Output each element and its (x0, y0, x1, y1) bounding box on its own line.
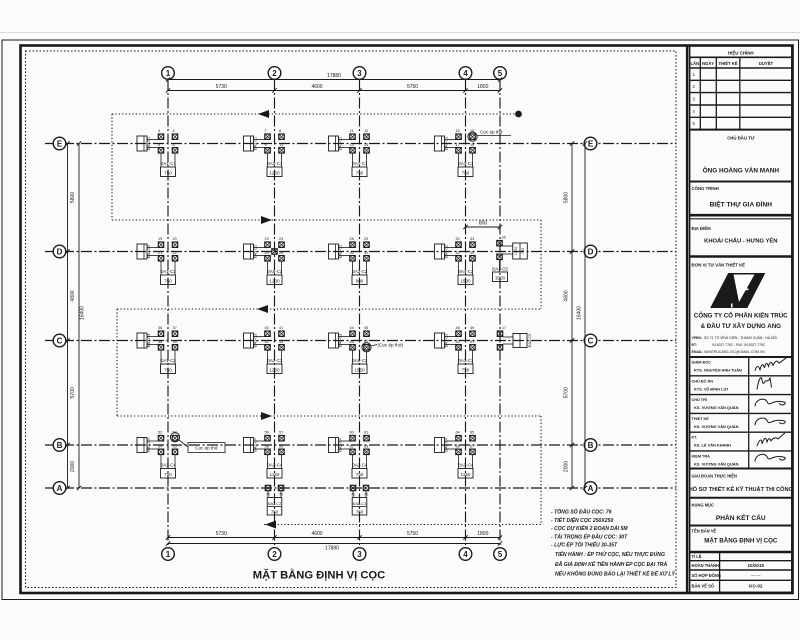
svg-text:NẾU KHÔNG ĐÚNG BÁO LẠI THIẾT K: NẾU KHÔNG ĐÚNG BÁO LẠI THIẾT KẾ ĐỂ XỬ LÝ (555, 570, 675, 578)
svg-text:- CỌC DỰ KIẾN 2 ĐOẠN DÀI 5M: - CỌC DỰ KIẾN 2 ĐOẠN DÀI 5M (551, 524, 628, 532)
svg-text:TÊN BẢN VẼ: TÊN BẢN VẼ (692, 529, 717, 534)
svg-text:KTS. VŨ ĐÌNH LỢI: KTS. VŨ ĐÌNH LỢI (694, 386, 728, 391)
column bubble 1 top (162, 67, 175, 80)
svg-text:ÔNG HOÀNG VĂN MANH: ÔNG HOÀNG VĂN MANH (703, 166, 780, 175)
grid line 4 (465, 80, 467, 548)
sequence line band 2 (112, 216, 541, 224)
sequence line band 5 (264, 521, 541, 529)
svg-text:35: 35 (502, 236, 506, 240)
svg-text:KT.: KT. (692, 436, 698, 440)
svg-text:44: 44 (350, 326, 354, 330)
column bubble 2 top (268, 67, 281, 80)
svg-text:15: 15 (456, 129, 460, 133)
svg-text:48: 48 (456, 326, 460, 330)
svg-text:D: D (57, 247, 63, 256)
svg-text:45: 45 (364, 326, 368, 330)
svg-text:D: D (588, 247, 594, 256)
svg-text:4: 4 (463, 550, 468, 559)
pile cap B2 (244, 431, 285, 478)
svg-text:4600: 4600 (311, 84, 322, 90)
svg-text:VPĐD:: VPĐD: (692, 336, 703, 340)
drawing title (253, 569, 385, 582)
dimension overall bottom 17880 (166, 541, 502, 551)
row bubble A left (53, 482, 66, 495)
location section (690, 226, 793, 257)
company name (694, 312, 788, 331)
svg-text:4600: 4600 (311, 531, 322, 537)
svg-text:KS. VƯƠNG VĂN QUÂN: KS. VƯƠNG VĂN QUÂN (694, 461, 739, 466)
svg-text:- TẢI TRỌNG ÉP ĐẦU CỌC: 30T: - TẢI TRỌNG ÉP ĐẦU CỌC: 30T (551, 532, 628, 540)
svg-text:5750: 5750 (407, 84, 418, 90)
dimension overall left 16400 (77, 141, 86, 490)
column bubble 4 bottom (459, 548, 472, 561)
svg-text:36: 36 (158, 326, 162, 330)
test pile note row B (170, 433, 225, 453)
pile cap D4 (435, 237, 476, 284)
svg-text:HỒ SƠ THIẾT KẾ KỸ THUẬT THI CÔ: HỒ SƠ THIẾT KẾ KỸ THUẬT THI CÔNG (689, 485, 793, 493)
svg-text:5800: 5800 (564, 192, 570, 203)
svg-text:HẠNG MỤC: HẠNG MỤC (692, 503, 715, 508)
svg-text:17880: 17880 (325, 545, 339, 551)
sequence line right 4-5 (540, 416, 542, 525)
sequence line right 2-3 (540, 220, 542, 309)
grid line D (45, 251, 676, 253)
grid line A (45, 487, 676, 489)
svg-text:16400: 16400 (80, 306, 86, 320)
svg-text:THIẾT KẾ: THIẾT KẾ (692, 416, 710, 421)
pile cap D1 (137, 237, 178, 284)
svg-text:2: 2 (272, 69, 277, 78)
row bubble A right (584, 482, 597, 495)
svg-text:1800: 1800 (477, 531, 488, 537)
dimension segments left (65, 141, 76, 490)
column bubble 4 top (459, 67, 472, 80)
svg-text:NGÀY: NGÀY (702, 61, 714, 66)
phase section (689, 474, 793, 498)
svg-text:KS. LÊ VĂN KHANH: KS. LÊ VĂN KHANH (694, 443, 731, 448)
pile cap C4 (435, 326, 476, 373)
column bubble 3 bottom (353, 548, 366, 561)
svg-text:HIỆU CHỈNH: HIỆU CHỈNH (728, 51, 754, 56)
pile cap D3 (329, 237, 370, 284)
column bubble 1 bottom (162, 548, 175, 561)
svg-text:24: 24 (279, 237, 283, 241)
svg-text:37: 37 (173, 326, 177, 330)
pile cap C1 (137, 326, 178, 373)
pile cap C2 (244, 326, 285, 373)
svg-text:2000: 2000 (564, 461, 570, 472)
info table (690, 552, 793, 592)
grid line B (45, 444, 676, 446)
svg-text:4800: 4800 (70, 290, 76, 301)
svg-text:- TỔNG SỐ ĐẦU CỌC: 76: - TỔNG SỐ ĐẦU CỌC: 76 (551, 509, 612, 516)
svg-text:04.6327.7762 - FAX: 04.6327.77: 04.6327.7762 - FAX: 04.6327.7762 (712, 343, 765, 347)
svg-text:4800: 4800 (564, 290, 570, 301)
svg-text:A: A (57, 484, 63, 493)
drawing border dotted (26, 51, 677, 588)
svg-text:64: 64 (456, 431, 460, 435)
svg-text:ĐƠN VỊ TƯ VẤN THIẾT KẾ: ĐƠN VỊ TƯ VẤN THIẾT KẾ (692, 263, 746, 268)
grid line E (45, 143, 676, 145)
svg-text:EMAIL:: EMAIL: (692, 350, 704, 354)
svg-text:DUYỆT: DUYỆT (759, 61, 774, 66)
svg-text:1: 1 (166, 69, 171, 78)
svg-text:20: 20 (173, 237, 177, 241)
row bubble B right (584, 439, 597, 452)
sequence line left 1-2 (111, 114, 113, 220)
dimension overall right 16400 (577, 141, 588, 490)
svg-text:BIỆT THỰ GIA ĐÌNH: BIỆT THỰ GIA ĐÌNH (710, 200, 773, 209)
dimension segments bottom (166, 531, 502, 540)
row bubble C right (584, 334, 597, 347)
title block divider (686, 46, 688, 594)
svg-text:800: 800 (479, 221, 488, 227)
svg-text:CHỦ ĐẦU TƯ: CHỦ ĐẦU TƯ (727, 136, 755, 141)
svg-text:2: 2 (272, 550, 277, 559)
svg-text:61: 61 (364, 431, 368, 435)
svg-text:19: 19 (158, 237, 162, 241)
svg-text:TỈ LỆ: TỈ LỆ (692, 554, 702, 559)
personnel table (690, 357, 793, 469)
svg-text:B: B (588, 441, 594, 450)
svg-text:KTS. NGUYỄN ANH TUẤN: KTS. NGUYỄN ANH TUẤN (694, 368, 742, 373)
svg-text:5750: 5750 (407, 531, 418, 537)
column bubble 3 top (353, 67, 366, 80)
pile cap B3 (329, 431, 370, 478)
svg-text:- LỰC ÉP TỐI THIỂU 30-35T: - LỰC ÉP TỐI THIỂU 30-35T (551, 541, 618, 549)
svg-text:(Cọc ép thử): (Cọc ép thử) (378, 342, 404, 348)
svg-text:ĐÃ GIẢ ĐỊNH KẾ TIẾN HÀNH ÉP CỌ: ĐÃ GIẢ ĐỊNH KẾ TIẾN HÀNH ÉP CỌC ĐẠI TRÀ (555, 560, 667, 568)
pile cap E2 (244, 129, 285, 176)
column bubble 2 bottom (268, 548, 281, 561)
pile cap A3 (350, 485, 368, 515)
notes (551, 509, 675, 578)
pile cap C5 (497, 326, 532, 350)
svg-text:4: 4 (463, 69, 468, 78)
svg-text:41: 41 (279, 326, 283, 330)
svg-text:E: E (588, 139, 594, 148)
svg-text:KIỂM TRA: KIỂM TRA (692, 453, 711, 458)
svg-text:10/2015: 10/2015 (747, 563, 764, 568)
svg-text:MẶT BẰNG ĐỊNH VỊ CỌC: MẶT BẰNG ĐỊNH VỊ CỌC (704, 537, 778, 545)
svg-text:LẦN: LẦN (690, 61, 699, 66)
revision table (690, 51, 793, 130)
sequence line left 3-4 (116, 309, 118, 416)
svg-text:SỐ HỢP ĐỒNG: SỐ HỢP ĐỒNG (692, 573, 722, 578)
svg-text:2000: 2000 (70, 461, 76, 472)
svg-text:65: 65 (470, 431, 474, 435)
svg-text:B: B (57, 441, 63, 450)
test pile note row C (362, 342, 404, 352)
svg-text:CHỦ TRÌ: CHỦ TRÌ (692, 397, 707, 402)
svg-text:3: 3 (357, 69, 362, 78)
svg-text:5: 5 (498, 69, 503, 78)
grid line 1 (167, 80, 169, 548)
svg-text:29: 29 (364, 237, 368, 241)
svg-text:5700: 5700 (564, 387, 570, 398)
svg-text:11: 11 (350, 129, 354, 133)
row bubble B left (53, 439, 66, 452)
svg-text:56: 56 (265, 431, 269, 435)
svg-text:- TIẾT DIỆN CỌC 250X250: - TIẾT DIỆN CỌC 250X250 (551, 516, 613, 524)
svg-text:KS. VƯƠNG VĂN QUÂN: KS. VƯƠNG VĂN QUÂN (694, 424, 739, 429)
drawing name section (690, 529, 793, 553)
category section (690, 503, 793, 526)
test pile note row E (468, 129, 511, 142)
dimension segments top (166, 84, 502, 93)
svg-text:23: 23 (265, 237, 269, 241)
grid line 2 (274, 80, 276, 548)
svg-text:& ĐẦU TƯ XÂY DỰNG ANG: & ĐẦU TƯ XÂY DỰNG ANG (701, 323, 782, 330)
row bubble D right (584, 245, 597, 258)
svg-text:1: 1 (166, 550, 171, 559)
svg-text:CHỦ ĐỒ ÁN: CHỦ ĐỒ ÁN (692, 378, 714, 383)
svg-text:E: E (57, 139, 63, 148)
sequence line band 1 (112, 110, 522, 118)
svg-text:A: A (588, 484, 594, 493)
svg-text:60: 60 (350, 431, 354, 435)
svg-text:ĐT:: ĐT: (692, 343, 697, 347)
company logo (711, 274, 765, 308)
svg-text:17880: 17880 (327, 73, 341, 79)
company contact (692, 335, 778, 354)
pile cap D2 (244, 237, 285, 284)
pile cap E1 (137, 129, 178, 176)
dimension segments right (564, 141, 575, 490)
row bubble E right (584, 137, 597, 150)
dimension 800 (463, 221, 502, 230)
svg-text:12: 12 (364, 129, 368, 133)
pile cap B1 (137, 431, 178, 478)
svg-text:KHOÁI CHÂU - HƯNG YÊN: KHOÁI CHÂU - HƯNG YÊN (704, 237, 777, 245)
row bubble E left (53, 137, 66, 150)
column bubble 5 bottom (494, 548, 507, 561)
pile cap C3 (329, 326, 370, 373)
pile cap B4 (435, 431, 476, 478)
svg-text:4: 4 (173, 129, 175, 133)
project section (690, 186, 793, 219)
svg-text:SỐ 71 TÔ VĨNH DIỆN - THANH XUÂ: SỐ 71 TÔ VĨNH DIỆN - THANH XUÂN - HÀ NỘI (704, 335, 777, 340)
svg-text:KC-02: KC-02 (749, 583, 763, 588)
svg-text:5700: 5700 (70, 387, 76, 398)
svg-text:— —: — — (751, 573, 761, 578)
svg-text:BẢN VẼ SỐ: BẢN VẼ SỐ (692, 583, 715, 588)
svg-text:KS. VƯƠNG VĂN QUÂN: KS. VƯƠNG VĂN QUÂN (694, 405, 739, 410)
grid line 5 (499, 80, 501, 548)
sheet edge line (0, 32, 800, 34)
pile cap E3 (329, 129, 370, 176)
svg-text:GIÁM ĐỐC: GIÁM ĐỐC (692, 360, 712, 365)
row bubble C left (53, 334, 66, 347)
svg-text:TIẾN HÀNH : ÉP THỬ CỌC, NẾU TH: TIẾN HÀNH : ÉP THỬ CỌC, NẾU THỰC ĐÚNG (555, 550, 665, 558)
row bubble D left (53, 245, 66, 258)
svg-text:49: 49 (470, 326, 474, 330)
svg-text:Cọc ép thử: Cọc ép thử (480, 129, 503, 135)
svg-text:C: C (588, 336, 594, 345)
svg-text:5: 5 (498, 550, 503, 559)
svg-text:C: C (57, 336, 63, 345)
grid line C (45, 340, 676, 342)
svg-text:3: 3 (357, 550, 362, 559)
svg-text:32: 32 (456, 237, 460, 241)
svg-text:57: 57 (279, 431, 283, 435)
svg-text:33: 33 (470, 237, 474, 241)
svg-text:5800: 5800 (70, 192, 76, 203)
svg-text:CÔNG TRÌNH: CÔNG TRÌNH (692, 186, 719, 191)
sequence line band 4 (117, 412, 541, 420)
svg-text:40: 40 (265, 326, 269, 330)
svg-text:28: 28 (350, 237, 354, 241)
column bubble 5 top (494, 67, 507, 80)
svg-text:5730: 5730 (216, 531, 227, 537)
svg-text:52: 52 (158, 431, 162, 435)
svg-text:GIAI ĐOẠN THỰC HIỆN: GIAI ĐOẠN THỰC HIỆN (692, 474, 738, 479)
svg-text:1800: 1800 (477, 84, 488, 90)
owner section (690, 136, 793, 182)
svg-text:3: 3 (158, 129, 160, 133)
svg-text:16400: 16400 (577, 306, 583, 320)
svg-text:HOÀN THÀNH: HOÀN THÀNH (692, 563, 720, 568)
svg-text:5730: 5730 (216, 84, 227, 90)
grid line 3 (359, 80, 361, 548)
svg-text:MẶT BẰNG ĐỊNH VỊ CỌC: MẶT BẰNG ĐỊNH VỊ CỌC (253, 569, 385, 582)
sequence line band 3 (117, 305, 541, 313)
pile cap A2 (265, 485, 283, 515)
svg-text:ĐỊA ĐIỂM: ĐỊA ĐIỂM (692, 226, 712, 231)
dimension overall top 17880 (166, 73, 502, 82)
title block frame (690, 46, 793, 593)
pile cap E4 (435, 129, 476, 176)
svg-text:7: 7 (265, 129, 267, 133)
svg-text:17: 17 (502, 326, 506, 330)
pile cap D5 (492, 236, 527, 282)
svg-text:KIENTRUCANG.JSC@GMAIL.COM.VN: KIENTRUCANG.JSC@GMAIL.COM.VN (704, 350, 765, 354)
svg-text:8: 8 (279, 129, 281, 133)
svg-text:THIẾT KẾ: THIẾT KẾ (718, 61, 737, 66)
design firm label (692, 263, 746, 268)
svg-text:CÔNG TY CỔ PHẦN KIẾN TRÚC: CÔNG TY CỔ PHẦN KIẾN TRÚC (694, 312, 788, 320)
